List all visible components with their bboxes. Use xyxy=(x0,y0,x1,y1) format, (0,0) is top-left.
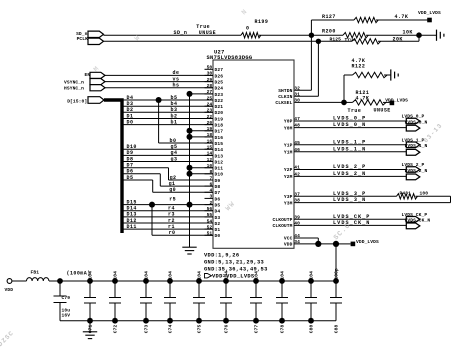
junction tie-down at D15 row xyxy=(187,202,193,208)
wire D13 tap to pin (r3) xyxy=(122,216,213,218)
svg-text:Y2P: Y2P xyxy=(284,167,293,173)
svg-text:D18: D18 xyxy=(215,123,224,129)
ground on bottom rail xyxy=(89,321,91,332)
svg-text:0: 0 xyxy=(246,26,249,32)
wire D0 tap to pin (b1) xyxy=(122,124,213,126)
wire D11 tap to pin (r1) xyxy=(122,228,213,230)
svg-text:LVDS_1_N: LVDS_1_N xyxy=(405,143,428,149)
wire node CLKSEL up to R122 xyxy=(343,75,345,102)
capacitor C79 xyxy=(59,281,61,296)
junction and stub to pin D11 xyxy=(187,165,193,171)
svg-text:C75: C75 xyxy=(197,324,203,333)
wire b0 branch from D4 row to pin D15 xyxy=(158,100,160,143)
junction on D4 row xyxy=(156,97,162,103)
junction D15 row at r0 branch xyxy=(149,202,155,208)
wire D12 tap to pin (r2) xyxy=(122,222,213,224)
wire unused pins tie-down vertical xyxy=(189,94,191,247)
wire D14 tap to pin (r4) xyxy=(122,210,213,212)
svg-text:True: True xyxy=(345,37,357,43)
pin 16 D15 xyxy=(205,142,214,144)
svg-text:CLKOUTP: CLKOUTP xyxy=(273,217,293,223)
pin 10 D11 xyxy=(205,167,214,169)
svg-text:31: 31 xyxy=(294,92,300,98)
svg-text:D16: D16 xyxy=(215,135,224,141)
wire node SDN down to SHTDN pin xyxy=(310,35,312,90)
junction supply node 1 xyxy=(315,241,321,247)
svg-text:VDD_LVDS: VDD_LVDS xyxy=(356,239,379,245)
capacitor C75 104 xyxy=(198,281,200,298)
svg-text:g2: g2 xyxy=(170,175,177,181)
svg-text:D0: D0 xyxy=(127,119,134,125)
svg-text:D15: D15 xyxy=(215,141,224,147)
bus D[15:0] xyxy=(104,100,122,233)
capacitor C77 104 xyxy=(255,281,257,298)
wire D7 staircase to pin D9 (g2) xyxy=(122,167,169,169)
svg-text:D13: D13 xyxy=(215,153,224,159)
svg-text:C73: C73 xyxy=(144,324,150,333)
svg-text:r0: r0 xyxy=(169,230,176,236)
wire D1 tap to pin (b2) xyxy=(122,118,213,120)
svg-text:r5: r5 xyxy=(169,196,176,202)
svg-text:D15: D15 xyxy=(127,199,137,205)
junction node SDN xyxy=(309,33,314,38)
wire HSYNC_n to pin D24 xyxy=(105,87,213,89)
op-amp U27 SN75LVDS83DGG body xyxy=(213,60,294,248)
wire R121 to VDD_LVDS terminal xyxy=(383,101,390,103)
pin 2 D5 xyxy=(205,204,214,206)
svg-text:R122: R122 xyxy=(352,63,366,69)
svg-text:D8: D8 xyxy=(215,184,221,190)
svg-text:LVDS_3_N: LVDS_3_N xyxy=(333,197,366,203)
svg-text:104: 104 xyxy=(309,271,315,280)
svg-text:LVDS_1_P: LVDS_1_P xyxy=(333,139,366,145)
resistor R125 20K xyxy=(318,40,352,42)
wire D5 staircase to pin D7 (g0) xyxy=(122,179,153,181)
junction node PCLKN xyxy=(316,39,321,44)
port VDD circle xyxy=(7,279,12,284)
svg-text:hs: hs xyxy=(173,83,180,89)
svg-text:LVDS_2_N: LVDS_2_N xyxy=(405,168,428,174)
svg-text:UNUSE: UNUSE xyxy=(374,107,391,113)
svg-text:g0: g0 xyxy=(169,187,176,193)
capacitor C80 104 xyxy=(310,281,312,298)
svg-text:D10: D10 xyxy=(127,144,137,150)
svg-text:b2: b2 xyxy=(171,113,178,119)
svg-text:LVDS_CK_N: LVDS_CK_N xyxy=(333,220,370,226)
pin 27 D23 xyxy=(205,93,214,95)
svg-text:Y3P: Y3P xyxy=(284,194,293,200)
junction node CLKSEL xyxy=(341,100,347,106)
ground top right xyxy=(436,30,438,41)
pin 54 D2 xyxy=(205,222,214,224)
svg-text:VDD: VDD xyxy=(284,242,293,248)
pin 28 D24 xyxy=(205,87,214,89)
pin 24 D21 xyxy=(205,105,214,107)
svg-text:C77: C77 xyxy=(254,324,260,333)
svg-text:VDD_LVDS: VDD_LVDS xyxy=(418,10,441,16)
svg-text:R199: R199 xyxy=(255,19,269,25)
wire R125 to ground node xyxy=(378,40,419,42)
svg-text:HSYNC_n: HSYNC_n xyxy=(64,86,84,92)
svg-text:r2: r2 xyxy=(168,218,175,224)
svg-text:CLKOUTM: CLKOUTM xyxy=(273,223,293,229)
pin 7 D9 xyxy=(205,179,214,181)
svg-text:b3: b3 xyxy=(171,107,178,113)
resistor R122 4.7K xyxy=(353,72,388,77)
svg-text:D25: D25 xyxy=(215,80,224,86)
svg-text:D[15:0]: D[15:0] xyxy=(67,99,87,105)
decoupling top rail xyxy=(60,280,336,282)
svg-text:b5: b5 xyxy=(171,95,178,101)
svg-text:D9: D9 xyxy=(127,150,134,156)
junction ground node top right xyxy=(416,32,422,38)
power terminal VDD_LVDS at R121 xyxy=(390,101,395,106)
svg-text:LVDS_0_P: LVDS_0_P xyxy=(333,116,366,122)
svg-text:R127: R127 xyxy=(322,14,336,20)
svg-text:r1: r1 xyxy=(168,224,175,230)
svg-text:VSYNC_n: VSYNC_n xyxy=(64,79,84,85)
pin 23 D20 xyxy=(205,111,214,113)
svg-text:Y3M: Y3M xyxy=(284,200,293,206)
capacitor C88 100p xyxy=(335,281,337,298)
svg-text:LVDS_2_P: LVDS_2_P xyxy=(333,164,366,170)
wire Y0P to port LVDS_0_P xyxy=(294,120,406,122)
svg-text:b4: b4 xyxy=(171,101,178,107)
wire R200 to ground node xyxy=(366,34,419,36)
wire Y1P to port LVDS_1_P xyxy=(294,144,406,146)
resistor R121 4.7K xyxy=(344,101,353,103)
wire PCLK from port to node PCLKN xyxy=(104,40,319,42)
svg-text:D3: D3 xyxy=(127,101,134,107)
pin 22 D19 xyxy=(205,118,214,120)
svg-text:16V: 16V xyxy=(62,313,71,319)
pin 29 D25 xyxy=(205,81,214,83)
svg-text:LVDS_1_N: LVDS_1_N xyxy=(333,146,366,152)
svg-text:VCC: VCC xyxy=(284,236,293,242)
junction supply node 2 xyxy=(333,241,339,247)
svg-text:100: 100 xyxy=(420,191,429,197)
ground right of R122 xyxy=(390,69,392,80)
svg-text:4.7K: 4.7K xyxy=(356,95,370,101)
svg-text:D6: D6 xyxy=(127,169,134,175)
resistor R200 10K xyxy=(311,34,343,36)
svg-text:D12: D12 xyxy=(215,159,224,165)
svg-text:CLKSEL: CLKSEL xyxy=(275,100,292,106)
svg-text:D21: D21 xyxy=(215,104,224,110)
wire D4 tap to pin (b5) xyxy=(122,99,213,101)
wire FB1 to rail xyxy=(49,280,60,282)
capacitor C78 104 xyxy=(281,281,283,298)
wire supply node down to decoupling rail xyxy=(335,244,337,281)
svg-text:C80: C80 xyxy=(309,324,315,333)
wire D15 tap to pin D5 (r5) xyxy=(122,204,213,206)
wire CLKOUTM to port LVDS_CK_N xyxy=(294,224,406,226)
svg-text:C76: C76 xyxy=(224,324,230,333)
wire D9 tap to pin (g4) xyxy=(122,154,213,156)
svg-text:Y0P: Y0P xyxy=(284,119,293,125)
wire D8 tap to pin (g3) xyxy=(122,161,213,163)
wire R122 to ground xyxy=(384,74,391,76)
svg-text:Y1P: Y1P xyxy=(284,143,293,149)
svg-text:SD_n: SD_n xyxy=(174,30,188,36)
svg-text:UNUSE: UNUSE xyxy=(199,30,216,36)
wire to ground symbol top right xyxy=(419,34,437,36)
svg-text:D2: D2 xyxy=(127,107,134,113)
wire Y0M to port LVDS_0_N xyxy=(294,127,406,129)
svg-text:LVDS_CK_P: LVDS_CK_P xyxy=(333,214,370,220)
svg-text:R125: R125 xyxy=(330,37,342,43)
svg-text:D7: D7 xyxy=(215,190,221,196)
inductor FB1 ferrite bead xyxy=(27,278,49,281)
pin 56 D4 xyxy=(205,210,214,212)
wire D10 tap to pin (g5) xyxy=(122,148,213,150)
svg-text:D8: D8 xyxy=(127,156,134,162)
junction and stub to pin D10 xyxy=(187,171,193,177)
junction and stub to pin D23 xyxy=(187,91,193,97)
svg-text:D6: D6 xyxy=(215,196,221,202)
wire VDD port to FB1 xyxy=(12,280,27,282)
svg-text:104: 104 xyxy=(144,271,150,280)
pin 15 D14 xyxy=(205,148,214,150)
wire Y2P to port LVDS_2_P xyxy=(294,169,406,171)
svg-text:104: 104 xyxy=(88,271,94,280)
junction and stub to pin D17 xyxy=(187,128,193,134)
svg-text:D10: D10 xyxy=(215,172,224,178)
pin 52 D1 xyxy=(205,228,214,230)
svg-text:R431: R431 xyxy=(400,191,412,197)
wire R127 to VDD_LVDS terminal xyxy=(376,19,430,21)
pin 6 D8 xyxy=(205,185,214,187)
svg-text:D20: D20 xyxy=(215,110,224,116)
ground below IC xyxy=(182,246,196,248)
svg-text:C79: C79 xyxy=(62,295,71,301)
resistor R431 100 termination xyxy=(397,194,418,199)
svg-text:VDD: VDD xyxy=(5,287,14,293)
wire VCC pin to supply node xyxy=(294,237,318,239)
wire Y2M to port LVDS_2_N xyxy=(294,175,406,177)
svg-text:3: 3 xyxy=(209,194,212,200)
svg-text:True: True xyxy=(348,108,362,114)
pin 8 D10 xyxy=(205,173,214,175)
svg-text:104: 104 xyxy=(224,271,230,280)
capacitor C76 104 xyxy=(225,281,227,298)
svg-text:10K: 10K xyxy=(403,29,413,35)
svg-text:D11: D11 xyxy=(215,166,224,172)
svg-text:LVDS_3_P: LVDS_3_P xyxy=(333,191,366,197)
svg-text:LVDS_2_N: LVDS_2_N xyxy=(333,171,366,177)
svg-text:r4: r4 xyxy=(168,206,175,212)
pin 12 D12 xyxy=(205,161,214,163)
svg-text:D13: D13 xyxy=(127,212,137,218)
svg-text:VDD=VDD_LVDS: VDD=VDD_LVDS xyxy=(212,273,255,279)
wire SD_n from port to R199 xyxy=(104,34,242,36)
wire supply node to VDD pin xyxy=(294,243,336,245)
svg-text:Y1M: Y1M xyxy=(284,150,293,156)
pin 50 D27 xyxy=(205,68,214,70)
resistor R127 4.7K xyxy=(354,17,378,22)
svg-text:D19: D19 xyxy=(215,116,224,122)
wire CLKOUTP to port LVDS_CK_P xyxy=(294,218,406,220)
svg-text:LVDS_0_N: LVDS_0_N xyxy=(333,122,366,128)
wire node PCLKN down to CLKIN pin xyxy=(317,41,319,96)
svg-text:g3: g3 xyxy=(171,156,178,162)
pin 20 D18 xyxy=(205,124,214,126)
svg-text:g1: g1 xyxy=(169,181,176,187)
svg-text:Y2M: Y2M xyxy=(284,174,293,180)
wire R431 loop to Y3M xyxy=(416,195,451,197)
capacitor C73 104 xyxy=(145,281,147,298)
svg-text:D2: D2 xyxy=(215,221,221,227)
wire node SDN to R127 xyxy=(311,19,354,21)
svg-text:104: 104 xyxy=(168,271,174,280)
svg-text:GND:5,13,21,29,33: GND:5,13,21,29,33 xyxy=(204,259,264,265)
wire EN to pin D26 xyxy=(105,74,213,76)
svg-text:r3: r3 xyxy=(168,212,175,218)
svg-text:VDD_LVDS: VDD_LVDS xyxy=(385,97,408,103)
pin 25 D22 xyxy=(205,99,214,101)
wire D2 tap to pin (b3) xyxy=(122,111,213,113)
pin 3 D6 xyxy=(205,197,214,199)
note VDD=VDD_LVDS xyxy=(205,274,212,278)
pin 30 D26 xyxy=(205,74,214,76)
svg-text:D17: D17 xyxy=(215,129,224,135)
svg-text:D7: D7 xyxy=(127,163,134,169)
svg-text:104: 104 xyxy=(280,271,286,280)
svg-text:32: 32 xyxy=(294,86,300,92)
svg-text:FB1: FB1 xyxy=(31,270,40,276)
capacitor C72 104 xyxy=(114,281,116,298)
wire node SDN up to R127 row xyxy=(310,20,312,35)
power terminal VDD_LVDS top right xyxy=(427,18,432,23)
wire VSYNC_n to pin D25 xyxy=(105,81,213,83)
svg-text:D9: D9 xyxy=(215,178,221,184)
capacitor C71 104 xyxy=(89,281,91,298)
pin 51 D0 xyxy=(205,234,214,236)
wire supply node to terminal xyxy=(336,243,351,245)
wire D6 staircase to pin D8 (g1) xyxy=(122,173,160,175)
svg-text:D4: D4 xyxy=(215,209,221,215)
capacitor C74 104 xyxy=(169,281,171,298)
svg-text:D0: D0 xyxy=(215,233,221,239)
svg-text:CLKIN: CLKIN xyxy=(278,94,292,100)
svg-text:C71: C71 xyxy=(88,324,94,333)
svg-text:vs: vs xyxy=(173,76,180,82)
svg-text:VDD:1,9,26: VDD:1,9,26 xyxy=(204,252,239,258)
power terminal VDD_LVDS at supply xyxy=(351,242,356,247)
svg-text:D4: D4 xyxy=(127,95,134,101)
svg-text:D1: D1 xyxy=(215,227,221,233)
svg-text:PCLK: PCLK xyxy=(77,36,89,42)
svg-text:C72: C72 xyxy=(113,324,119,333)
svg-text:Y0M: Y0M xyxy=(284,125,293,131)
svg-text:D22: D22 xyxy=(215,98,224,104)
svg-text:4.7K: 4.7K xyxy=(395,14,409,20)
svg-text:R200: R200 xyxy=(322,29,336,35)
svg-text:SN75LVDS83DGG: SN75LVDS83DGG xyxy=(207,55,253,61)
svg-text:C78: C78 xyxy=(280,324,286,333)
junction FB1 output xyxy=(57,278,63,284)
svg-text:100p: 100p xyxy=(334,268,340,280)
svg-text:b1: b1 xyxy=(171,119,178,125)
svg-text:D24: D24 xyxy=(215,86,224,92)
svg-text:b0: b0 xyxy=(170,138,177,144)
svg-text:C88: C88 xyxy=(334,324,340,333)
wire Y3P to R431 xyxy=(294,195,397,197)
svg-text:(100mA): (100mA) xyxy=(67,270,91,276)
svg-text:de: de xyxy=(173,70,180,76)
wire CLKSEL pin to node xyxy=(294,101,344,103)
resistor R199 xyxy=(241,33,261,38)
svg-text:D1: D1 xyxy=(127,113,134,119)
svg-text:D5: D5 xyxy=(215,203,221,209)
svg-text:SHTDN: SHTDN xyxy=(278,88,292,94)
svg-text:LVDS_0_N: LVDS_0_N xyxy=(405,119,428,125)
pin 14 D13 xyxy=(205,154,214,156)
svg-text:D27: D27 xyxy=(215,67,224,73)
svg-text:g4: g4 xyxy=(171,150,178,156)
pin 55 D3 xyxy=(205,216,214,218)
wire R199 to node SDN xyxy=(259,34,311,36)
svg-text:g5: g5 xyxy=(171,144,178,150)
decoupling bottom rail xyxy=(60,320,336,322)
svg-text:D12: D12 xyxy=(127,218,137,224)
svg-text:104: 104 xyxy=(197,271,203,280)
svg-text:104: 104 xyxy=(254,271,260,280)
svg-text:D5: D5 xyxy=(127,175,134,181)
svg-text:D23: D23 xyxy=(215,92,224,98)
svg-text:30: 30 xyxy=(294,98,300,104)
svg-text:104: 104 xyxy=(113,271,119,280)
svg-text:D14: D14 xyxy=(127,206,137,212)
pin 4 D7 xyxy=(205,191,214,193)
pin 19 D17 xyxy=(205,130,214,132)
svg-text:50: 50 xyxy=(207,65,213,71)
svg-text:C74: C74 xyxy=(168,324,174,333)
svg-text:D11: D11 xyxy=(127,224,137,230)
wire r0 branch down to pin D0 xyxy=(151,205,153,236)
svg-text:D26: D26 xyxy=(215,73,224,79)
svg-text:D3: D3 xyxy=(215,215,221,221)
pin 18 D16 xyxy=(205,136,214,138)
wire Y1M to port LVDS_1_N xyxy=(294,151,406,153)
svg-text:D14: D14 xyxy=(215,147,224,153)
wire D3 tap to pin (b4) xyxy=(122,105,213,107)
junction and stub to pin D16 xyxy=(187,134,193,140)
